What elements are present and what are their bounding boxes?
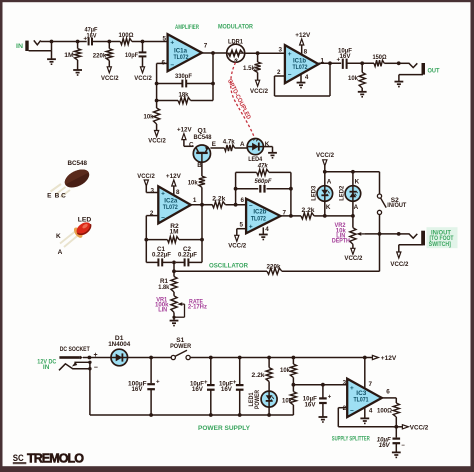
label 47k — [257, 163, 268, 170]
svg-text:VCC/2: VCC/2 — [148, 138, 166, 145]
wire oscillator row — [174, 270, 267, 272]
resistor 4.7k — [210, 145, 247, 151]
node 10k out top — [360, 61, 364, 65]
DC socket — [59, 356, 92, 371]
svg-text:4: 4 — [305, 74, 309, 81]
svg-text:VCC/2: VCC/2 — [137, 173, 155, 180]
ground at input jack — [47, 59, 56, 64]
terminal +12V at Q1 — [177, 126, 194, 146]
svg-text:+: + — [204, 380, 208, 386]
svg-text:18k: 18k — [179, 92, 189, 99]
terminal VCC/2 at IC2a pin3 — [137, 173, 158, 193]
svg-text:LIN: LIN — [158, 306, 167, 313]
ground below 10uF vcc2 — [392, 452, 401, 457]
labels Q1 BC548 — [189, 128, 216, 169]
labels S1 POWER — [170, 337, 191, 350]
svg-text:B: B — [55, 193, 60, 200]
transistor Q1 — [193, 145, 210, 162]
output jack OUT — [397, 61, 425, 81]
svg-text:100Ω: 100Ω — [377, 408, 392, 415]
resistor R1 1.8k — [171, 277, 177, 296]
pictorial LED label — [78, 217, 92, 224]
capacitor 10pF — [139, 42, 147, 67]
wire S2 bottom — [379, 215, 381, 272]
svg-text:SUPPLY SPLITTER: SUPPLY SPLITTER — [332, 435, 370, 442]
labels LED4 — [240, 141, 270, 163]
pictorial LED pins K A — [56, 233, 63, 256]
svg-text:100Ω: 100Ω — [119, 32, 135, 39]
capacitor C1 — [146, 258, 172, 266]
LED rail — [325, 172, 380, 194]
svg-text:7: 7 — [369, 381, 373, 388]
svg-text:IC2a: IC2a — [164, 199, 178, 205]
terminal VCC/2 below 10pF — [134, 67, 152, 82]
svg-text:10k: 10k — [144, 114, 154, 121]
resistor 2.2k LED1 — [266, 358, 272, 392]
svg-text:+12V: +12V — [295, 32, 311, 39]
node rail LED1 — [267, 413, 271, 417]
switch S2 — [377, 194, 386, 214]
wire IC2a pin2 — [146, 216, 158, 263]
label 1.5k — [243, 65, 255, 72]
LDR LDR1 — [227, 44, 245, 62]
resistor 47k — [236, 169, 291, 175]
label 560pF — [255, 178, 272, 185]
node IC1a out — [211, 51, 215, 55]
svg-text:330pF: 330pF — [175, 73, 192, 80]
node rail 100uF — [149, 413, 153, 417]
svg-text:−: − — [94, 364, 98, 371]
capacitor 100uF — [147, 358, 160, 416]
svg-text:+: + — [156, 378, 160, 385]
node LED2 top — [351, 170, 355, 174]
svg-text:16V: 16V — [379, 442, 391, 449]
node splitter mid — [292, 383, 296, 387]
resistor 18k — [157, 97, 213, 103]
node 330pF right — [211, 82, 215, 86]
label 100ohm — [119, 32, 135, 39]
svg-text:47k: 47k — [257, 163, 268, 170]
svg-text:5: 5 — [239, 222, 243, 229]
svg-text:+: + — [161, 190, 165, 197]
ground at OUT jack — [395, 82, 404, 87]
node S2 wiper row — [378, 232, 382, 236]
svg-text:+: + — [350, 385, 354, 392]
label IN — [16, 43, 23, 50]
pictorial BC548 pins E B C — [47, 193, 66, 200]
section label SUPPLY SPLITTER — [332, 435, 370, 442]
svg-text:4: 4 — [369, 408, 373, 415]
wire input row — [52, 41, 87, 43]
node IC2a out — [200, 203, 204, 207]
wire D1 to S1 — [128, 357, 172, 359]
svg-text:6: 6 — [241, 197, 245, 204]
wire IC2b output — [280, 215, 301, 217]
svg-text:POWER: POWER — [255, 389, 261, 409]
svg-text:1.5k: 1.5k — [243, 65, 255, 72]
wire loop to node — [393, 426, 396, 428]
op-amp IC1b — [285, 45, 319, 83]
svg-text:−: − — [170, 62, 174, 69]
label 330pF — [175, 73, 192, 80]
switch S1 — [171, 350, 190, 359]
svg-text:16V: 16V — [221, 386, 233, 393]
svg-text:VCC/2: VCC/2 — [101, 75, 119, 82]
svg-text:DEPTH: DEPTH — [332, 238, 350, 245]
svg-text:−: − — [288, 72, 292, 79]
svg-text:A: A — [240, 141, 245, 148]
svg-text:AMPLIFIER: AMPLIFIER — [175, 24, 199, 31]
label 2.2k LED1 — [252, 372, 265, 379]
wire 47k loop left — [235, 172, 237, 204]
resistor 10k lower splitter — [290, 385, 296, 415]
svg-text:IC1a: IC1a — [174, 48, 188, 54]
label 4.7k — [223, 139, 235, 146]
capacitor 560pF — [236, 185, 291, 193]
terminal VCC/2 right — [396, 424, 428, 431]
svg-text:2: 2 — [277, 69, 281, 76]
resistor 100ohm splitter — [393, 403, 399, 427]
op-amp IC1a labels — [161, 35, 207, 69]
label OPTO-COUPLED — [226, 78, 252, 121]
label DC SOCKET — [60, 346, 90, 353]
svg-text:7: 7 — [204, 43, 208, 50]
section label MODULATOR — [218, 23, 253, 30]
resistor 10k upper splitter — [290, 358, 296, 385]
terminal VCC/2 below 10k — [148, 131, 166, 145]
svg-text:1M: 1M — [64, 52, 74, 59]
node 560pF left — [234, 187, 238, 191]
jack IN/OUT to foot switch — [399, 231, 425, 252]
wire IC1a out to LDR — [202, 52, 227, 54]
diode D1 — [111, 349, 128, 366]
label 10uF ps1 — [190, 380, 204, 393]
wire LDR to IC1b pin3 — [245, 52, 285, 54]
opto dashed link — [231, 63, 254, 137]
node IC3 pin7 rail — [363, 356, 367, 360]
label 2.2k into pin6 — [212, 196, 225, 203]
wire pin7 from rail — [364, 358, 366, 389]
labels D1 1N4004 — [108, 335, 130, 348]
svg-text:10k: 10k — [280, 367, 290, 374]
svg-text:TL072: TL072 — [251, 216, 267, 222]
label OUT — [428, 67, 440, 74]
svg-text:3: 3 — [343, 379, 347, 386]
label 10k lower — [282, 398, 292, 405]
svg-text:E: E — [212, 141, 216, 148]
terminal +12V at IC2a pin8 — [166, 173, 182, 195]
svg-text:C: C — [61, 193, 66, 200]
wire IC1a output branch — [212, 53, 214, 101]
svg-text:3: 3 — [151, 187, 155, 194]
svg-text:16V: 16V — [340, 53, 352, 60]
svg-text:C: C — [189, 141, 194, 148]
ground IC2b pin4 — [259, 227, 268, 239]
op-amp IC1b labels — [277, 46, 325, 81]
svg-text:10k: 10k — [188, 179, 198, 186]
terminal VCC/2 below 220k — [101, 67, 119, 82]
svg-text:TL072: TL072 — [293, 65, 309, 71]
label 10uF splitter — [303, 396, 317, 409]
input jack IN — [25, 40, 51, 59]
svg-text:SWITCH]: SWITCH] — [429, 241, 451, 248]
resistor 10k at output — [359, 63, 365, 92]
capacitor 47uF — [83, 36, 109, 46]
labels RATE — [188, 299, 207, 311]
node cap2 rail — [238, 356, 242, 360]
svg-text:K: K — [326, 204, 331, 211]
power rail after S1 — [190, 357, 372, 359]
wire IC1b feedback loop — [275, 63, 331, 96]
svg-text:10k: 10k — [282, 398, 292, 405]
ground IC3 pin4 — [360, 407, 369, 423]
node R2 right — [200, 238, 204, 242]
svg-text:OSCILLATOR: OSCILLATOR — [209, 263, 248, 270]
wire Q1 base chain — [201, 162, 203, 176]
label 10k at output — [348, 75, 358, 82]
labels VR1 — [155, 296, 169, 313]
labels S2 — [387, 197, 406, 209]
op-amp IC2a — [158, 186, 191, 223]
section label POWER SUPPLY — [198, 425, 251, 432]
wire IC3 feedback — [338, 408, 393, 427]
resistor 1.5k — [255, 53, 261, 80]
node pin6 — [234, 203, 238, 207]
op-amp IC1a — [168, 34, 202, 71]
label 10k base — [188, 179, 198, 186]
svg-text:LDR1: LDR1 — [228, 38, 243, 45]
svg-text:IC3: IC3 — [356, 391, 367, 397]
svg-text:4: 4 — [265, 226, 269, 233]
wire IC1b output — [319, 62, 342, 64]
svg-text:MODULATOR: MODULATOR — [218, 23, 253, 30]
node 2.2k rail — [267, 356, 271, 360]
node R2 left — [144, 238, 148, 242]
node VCC/2 out — [394, 425, 398, 429]
svg-text:8: 8 — [304, 49, 308, 56]
terminal VCC/2 above LEDs — [316, 152, 334, 172]
svg-text:3: 3 — [279, 46, 283, 53]
svg-text:VCC/2: VCC/2 — [316, 152, 334, 159]
resistor 2.2k into pin6 — [202, 202, 246, 208]
terminal +12V right — [372, 355, 396, 362]
label 100uF 16V — [128, 380, 147, 393]
svg-text:+: + — [233, 380, 237, 386]
svg-text:VCC/2: VCC/2 — [250, 88, 268, 95]
capacitor 10uF vcc2 — [393, 427, 406, 453]
title TREMOLO — [27, 451, 84, 465]
node LED3 top — [323, 170, 327, 174]
svg-text:LED: LED — [78, 217, 92, 224]
svg-text:10k: 10k — [348, 75, 358, 82]
logo SC — [13, 453, 27, 464]
svg-text:POWER: POWER — [170, 343, 191, 350]
svg-text:K: K — [56, 233, 61, 240]
labels LED1 POWER — [249, 389, 261, 409]
svg-text:+12V: +12V — [177, 126, 192, 133]
labels LED2 — [338, 178, 359, 211]
label LDR1 — [228, 38, 243, 45]
node 330pF left — [155, 82, 159, 86]
svg-text:2-17Hz: 2-17Hz — [188, 304, 207, 311]
labels C1 C2 — [152, 246, 197, 259]
label 10uF 16V output — [338, 48, 352, 61]
svg-text:+: + — [328, 395, 332, 401]
node osc row — [172, 269, 176, 273]
terminal VCC/2 below 1.5k — [250, 80, 268, 95]
label 10uF ps2 — [219, 380, 233, 393]
resistor R2 1M — [146, 237, 202, 243]
label 220k osc — [267, 263, 281, 270]
svg-text:LED2: LED2 — [338, 185, 345, 201]
node LED3 bottom — [323, 214, 327, 218]
svg-text:VCC/2: VCC/2 — [410, 424, 429, 431]
svg-text:6: 6 — [386, 388, 390, 395]
label R2 — [170, 223, 180, 236]
capacitor 10uF splitter — [319, 385, 332, 417]
ground below VR1 — [170, 321, 179, 326]
wire 47k loop right — [290, 172, 292, 216]
label 220k — [93, 52, 107, 59]
wire IC2a output row — [191, 204, 213, 206]
capacitor 10uF ps1 — [204, 358, 215, 416]
svg-text:16V: 16V — [87, 32, 98, 39]
label 10k upper — [280, 367, 290, 374]
label 10k below IC1a — [144, 114, 154, 121]
op-amp IC3 labels — [343, 379, 391, 414]
node 1M top — [76, 40, 80, 44]
svg-text:0.22µF: 0.22µF — [178, 252, 197, 259]
labels + - — [94, 352, 98, 371]
svg-text:LED3: LED3 — [310, 185, 317, 201]
potentiometer VR2 — [350, 216, 365, 248]
svg-text:1: 1 — [193, 197, 197, 204]
pictorial BC548 label — [67, 160, 87, 167]
svg-text:VCC/2: VCC/2 — [134, 75, 152, 82]
svg-text:4.7k: 4.7k — [223, 139, 235, 146]
node input — [50, 40, 54, 44]
svg-text:−: − — [350, 408, 354, 415]
label IN/OUT TO FOOT SWITCH — [427, 227, 458, 248]
svg-text:−: − — [161, 214, 165, 221]
svg-text:VCC/2: VCC/2 — [344, 255, 362, 262]
capacitor 10uF output — [336, 57, 374, 69]
terminal VCC/2 at IC2b pin5 — [228, 229, 246, 250]
svg-text:150Ω: 150Ω — [373, 54, 387, 61]
svg-text:IN: IN — [16, 43, 23, 50]
svg-text:+: + — [249, 223, 253, 230]
label 2.2k to LEDs — [302, 207, 315, 214]
label 1M — [64, 52, 74, 59]
svg-text:5: 5 — [162, 35, 166, 42]
op-amp IC3 — [347, 379, 382, 417]
label 100ohm splitter — [377, 408, 392, 415]
label 10uF vcc2 — [377, 437, 391, 450]
svg-text:TL072: TL072 — [174, 55, 190, 61]
node C mid — [172, 261, 176, 265]
node 18k left — [155, 99, 159, 103]
svg-text:+: + — [170, 40, 174, 47]
node cap1 rail — [209, 356, 213, 360]
svg-text:DC SOCKET: DC SOCKET — [60, 346, 90, 353]
ground at LED4 — [268, 153, 277, 158]
node 10uF splitter — [321, 383, 325, 387]
svg-text:1N4004: 1N4004 — [108, 341, 130, 348]
node rail cap1 — [209, 413, 213, 417]
resistor 150ohm — [374, 60, 399, 66]
LED LED4 — [247, 138, 263, 155]
wire IC3 output — [382, 398, 397, 403]
resistor 10k base — [199, 176, 205, 205]
node 560pF right — [289, 187, 293, 191]
svg-text:−: − — [401, 443, 405, 449]
svg-text:2.2k: 2.2k — [302, 207, 315, 214]
svg-text:VCC/2: VCC/2 — [390, 261, 408, 268]
terminal +12V above IC1b — [295, 32, 311, 55]
ground IC1b pin4 — [297, 74, 306, 88]
svg-text:BC548: BC548 — [67, 160, 87, 167]
capacitor 10uF ps2 — [233, 358, 244, 416]
label 12V DC IN — [37, 358, 56, 371]
node DC + — [88, 356, 92, 360]
op-amp IC2a labels — [150, 187, 197, 221]
terminal VCC/2 below jack — [390, 252, 408, 268]
resistor 10k below IC1a — [154, 108, 160, 131]
svg-text:A: A — [354, 204, 359, 211]
pictorial BC548 — [51, 166, 93, 197]
resistor 220k — [106, 42, 112, 67]
node 1.5k top — [256, 51, 260, 55]
section label OSCILLATOR — [209, 263, 248, 270]
section label AMPLIFIER — [175, 24, 199, 31]
labels LED3 — [310, 178, 331, 211]
svg-text:IN: IN — [43, 364, 50, 371]
resistor 220k osc — [267, 268, 380, 274]
LED LED3 — [317, 172, 333, 216]
svg-text:BC548: BC548 — [194, 134, 212, 141]
wire DC to D1 — [89, 357, 111, 359]
svg-text:IN/OUT: IN/OUT — [387, 202, 406, 209]
svg-text:A: A — [327, 178, 332, 185]
svg-text:TL071: TL071 — [354, 398, 370, 404]
node 220k top — [107, 40, 111, 44]
svg-text:TL072: TL072 — [163, 205, 179, 211]
wire LED4 to ground — [263, 147, 272, 153]
svg-text:16V: 16V — [132, 386, 144, 393]
LED LED2 — [345, 172, 361, 216]
svg-text:0.22µF: 0.22µF — [152, 252, 171, 259]
svg-text:220k: 220k — [93, 52, 107, 59]
svg-text:8: 8 — [176, 189, 180, 196]
op-amp IC2b labels — [239, 197, 286, 233]
svg-text:K: K — [355, 178, 360, 185]
op-amp IC2b — [246, 199, 280, 234]
node 100uF top — [149, 356, 153, 360]
wire splitter node row — [293, 384, 347, 386]
ground below 10uF splitter — [319, 417, 328, 422]
node LED2 bottom — [351, 214, 355, 218]
capacitor C2 — [176, 258, 202, 266]
label 47uF 16V — [85, 27, 98, 40]
wire IC1a pin6 — [157, 63, 168, 108]
svg-text:16V: 16V — [305, 401, 317, 408]
node IC2b out — [289, 214, 293, 218]
label 10pF — [125, 52, 138, 59]
svg-text:+12V: +12V — [381, 355, 397, 362]
node jack tip — [397, 232, 401, 236]
svg-text:560pF: 560pF — [255, 178, 272, 185]
LED LED1 — [261, 391, 277, 415]
